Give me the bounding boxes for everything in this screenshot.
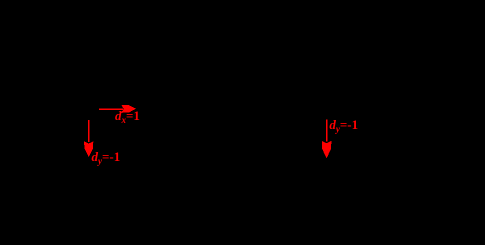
arrow dy=-1 (right, vertical, pointing down)	[322, 120, 332, 159]
svg-text:dy=-1: dy=-1	[92, 149, 121, 166]
arrow dx=1 (horizontal, pointing right)	[99, 105, 136, 113]
arrow dy=-1 (left, vertical, pointing down)	[84, 120, 93, 157]
svg-text:dx=1: dx=1	[115, 108, 140, 125]
svg-text:dy=-1: dy=-1	[329, 117, 358, 134]
